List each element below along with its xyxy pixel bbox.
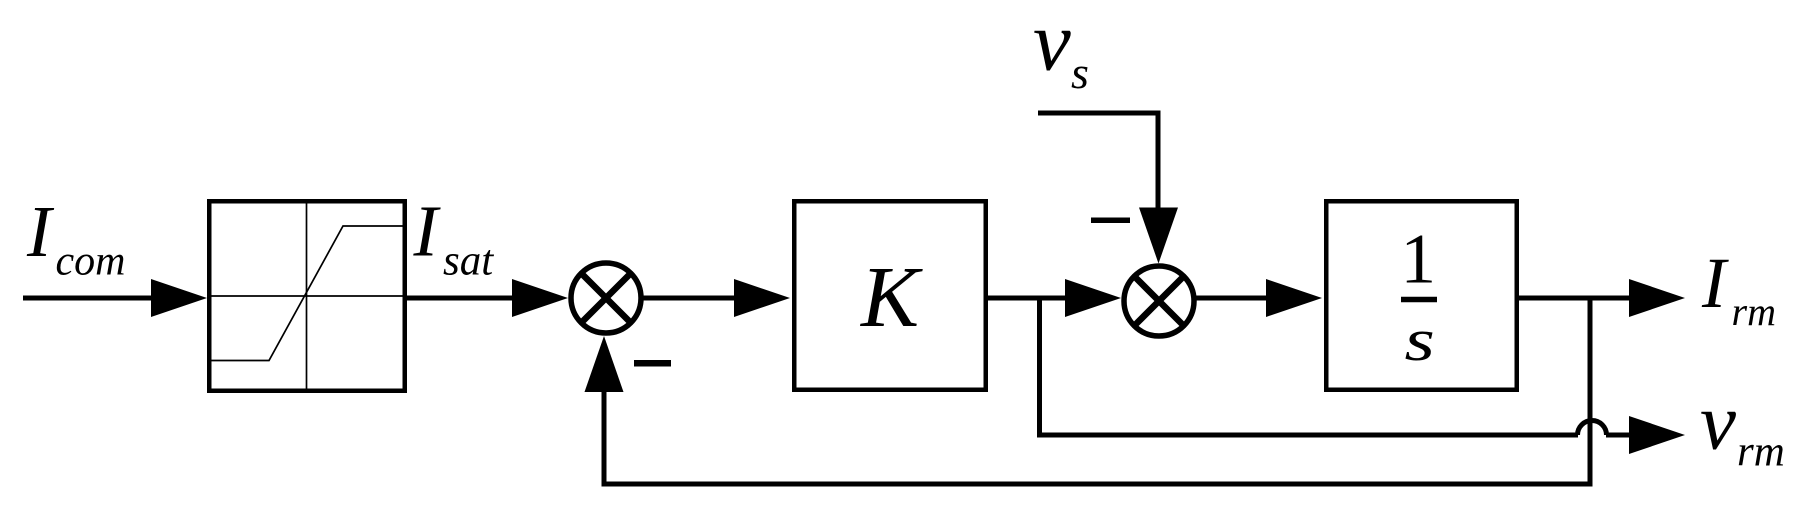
wire hop to v_rm arrow [1606,433,1632,438]
wire summing junction 2 to integrator block [1195,296,1270,301]
svg-text:1: 1 [1401,221,1437,299]
arrowhead into summing junction 2 [1065,279,1121,317]
minus sign at summing junction 2 [1091,218,1130,224]
node v_s label [1033,0,1089,98]
svg-text:I: I [26,191,55,272]
wire saturation block to summing junction 1 [407,296,520,301]
arrowhead I_rm output [1629,279,1685,317]
saturation block [209,201,405,391]
arrowhead v_s into summing junction 2 [1139,208,1178,264]
wire K block to summing junction 2 [985,296,1067,301]
node v_rm label [1700,377,1785,476]
arrowhead into summing junction 1 [512,279,568,317]
svg-text:v: v [1700,377,1736,467]
gain block K [794,201,986,390]
wire branch after K down to v_rm line [1040,298,1579,435]
svg-text:rm: rm [1737,429,1785,476]
integrator block 1/s [1326,201,1517,390]
minus sign at summing junction 1 [634,360,671,367]
svg-text:I: I [1701,243,1729,323]
node I_rm label [1701,243,1776,334]
wire feedback from output down and back to summing junction 1 [604,298,1590,484]
svg-text:com: com [56,239,126,285]
svg-text:s: s [1405,307,1435,373]
svg-text:I: I [413,191,442,272]
node I_com label [26,191,125,285]
svg-text:K: K [859,248,923,345]
summing junction 1 [571,263,641,333]
wire integrator to I_rm output [1517,296,1632,301]
wire hop over feedback riser [1578,421,1607,436]
svg-text:v: v [1033,0,1071,89]
svg-text:sat: sat [443,238,494,285]
arrowhead feedback into summing junction 1 [585,336,624,392]
arrowhead into saturation block [151,279,207,317]
arrowhead into integrator block [1266,279,1322,317]
arrowhead v_rm output [1629,416,1685,454]
wire summing junction 1 to K block [643,296,740,301]
wire v_s input [1038,113,1158,209]
svg-text:s: s [1071,47,1089,98]
arrowhead into K block [734,279,790,317]
svg-text:rm: rm [1732,289,1776,334]
node I_sat label [413,191,495,285]
wire input I_com [23,296,160,301]
summing junction 2 [1124,266,1194,336]
